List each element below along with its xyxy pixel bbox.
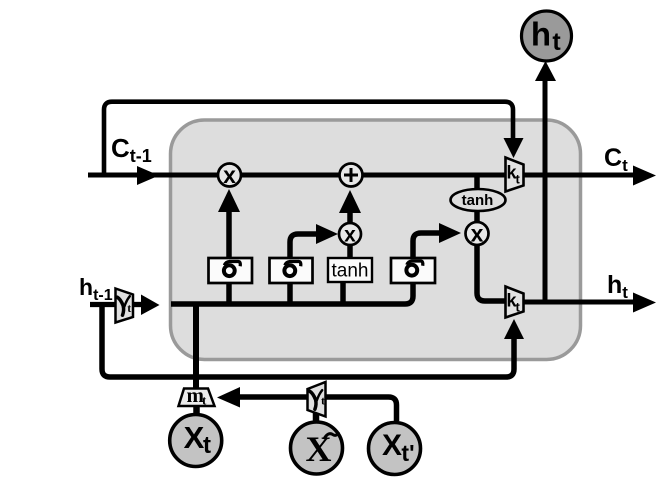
gate kt top <box>506 158 524 192</box>
wire: mt riser into cell h-line <box>193 304 199 389</box>
svg-text:x: x <box>223 162 236 188</box>
tanh ellipse <box>451 189 506 211</box>
svg-text:X: X <box>382 429 402 462</box>
svg-text:t: t <box>552 28 561 56</box>
node ht output circle <box>522 11 572 61</box>
sigma box 3 <box>391 258 435 283</box>
wire: x2 to plus arrow <box>339 190 361 224</box>
node Xt' circle <box>369 423 421 475</box>
svg-text:t: t <box>321 394 325 408</box>
svg-text:h: h <box>531 16 551 53</box>
wire: x3 down and right into kt bottom <box>477 244 506 301</box>
svg-text:t': t' <box>401 440 414 466</box>
svg-text:t: t <box>516 172 521 187</box>
wire: internal h-line <box>171 282 413 304</box>
multiply node x3 <box>466 221 489 247</box>
wire: mt to Xt circle <box>193 404 200 417</box>
wire: riser to ht circle <box>535 61 556 302</box>
svg-text:tanh: tanh <box>332 261 369 282</box>
node Xt circle <box>170 415 222 467</box>
sigma box 2 <box>270 258 313 283</box>
wire: Xt' up and left arrow into mt <box>217 387 397 421</box>
svg-text:t: t <box>127 301 131 315</box>
LSTM cell body <box>171 120 581 360</box>
gate mt (trapezoid) <box>179 383 215 408</box>
wire: h output line from kt bottom <box>523 293 656 313</box>
multiply node x2 <box>339 223 361 247</box>
multiply node x1 <box>218 162 241 188</box>
wire: sigma2 down to h-line <box>287 283 293 304</box>
wire: sigma3 elbow to x3 arrow <box>413 223 461 258</box>
wire: sigma1 down to h-line <box>226 283 232 304</box>
gate gamma-t left <box>116 289 134 323</box>
node Xtilde circle <box>291 422 343 474</box>
wire: C-line (Ct-1 to Ct) <box>88 166 656 186</box>
svg-text:t: t <box>203 432 211 459</box>
wire: C-line down to tanh ellipse <box>474 175 480 191</box>
svg-text:tanh: tanh <box>462 192 494 209</box>
svg-text:t: t <box>516 300 521 315</box>
wire: sigma1 to x1 arrow <box>218 189 240 258</box>
svg-text:t: t <box>202 393 207 408</box>
svg-text:x: x <box>344 224 356 247</box>
wire: gamma gate output arrow into cell <box>133 295 160 316</box>
tanh box <box>328 258 372 282</box>
wire: tanh box down to h-line <box>340 281 346 304</box>
svg-text:x: x <box>471 221 484 247</box>
sigma box 1 <box>209 258 253 283</box>
wire: tanh box up to x2 <box>347 245 353 258</box>
gate kt bottom <box>506 287 524 318</box>
svg-text:X: X <box>184 420 205 455</box>
wire: Xtilde up to gamma gate bottom <box>313 412 320 424</box>
wire: tanh ellipse to x3 <box>474 210 480 224</box>
wire: ht-1 input into gamma gate <box>90 302 116 307</box>
gate gamma-t bottom <box>308 382 326 417</box>
wire: top recurrent rail into kt <box>104 102 524 175</box>
add node <box>340 164 363 187</box>
wire: ht-1 drop and bottom rail to kt bottom arrow <box>102 305 524 378</box>
wire: sigma2 elbow to x2 arrow <box>290 224 338 258</box>
